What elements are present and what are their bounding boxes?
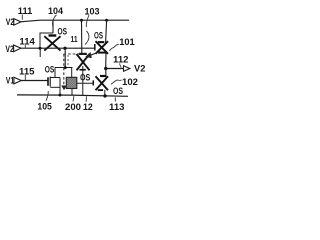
current path arrow shaft to transistor 11 (90, 52, 100, 56)
transistor 12 bottom contact bar (80, 69, 86, 71)
svg-text:OS: OS (94, 30, 103, 40)
svg-text:115: 115 (19, 66, 35, 76)
svg-text:113: 113 (109, 102, 125, 112)
svg-text:V2: V2 (6, 17, 15, 27)
svg-text:OS: OS (45, 65, 55, 75)
label 104 (48, 6, 64, 27)
wire 200 to row D (71, 89, 73, 96)
wire source of 11 down to output node (105, 53, 107, 69)
wire mid node horizontal (55, 67, 73, 69)
transistor 11 bottom contact bar (98, 52, 106, 54)
transistor 11 gate bar (94, 44, 96, 51)
svg-text:V1: V1 (6, 76, 15, 86)
transistor 13 source lead (50, 86, 60, 88)
label 12 (83, 96, 93, 112)
svg-text:OS: OS (80, 72, 90, 82)
svg-text:103: 103 (85, 7, 100, 17)
svg-text:111: 111 (18, 6, 33, 16)
label 111 (18, 6, 33, 20)
wire 111 (row A, top V2 bus) (20, 20, 129, 22)
label 112 (113, 54, 129, 67)
svg-text:OS: OS (58, 26, 68, 36)
wire source of 102 to row D (104, 90, 106, 96)
node dot output V2 (104, 67, 107, 70)
transistor 14 top contact bar (49, 34, 57, 36)
terminal V2 output (124, 64, 146, 74)
svg-text:101: 101 (119, 37, 135, 47)
svg-text:102: 102 (122, 77, 138, 87)
svg-text:11: 11 (71, 35, 78, 44)
wire 114 (row B, second V2 bus) (21, 47, 95, 49)
label 102 (111, 77, 138, 87)
transistor 102 (crossed out, OS) (96, 76, 109, 90)
wire bent lead row B up to gate node of transistor 14 (40, 33, 53, 48)
wire gate of transistor 14 from row A (52, 20, 54, 33)
label 101 (109, 37, 134, 51)
transistor 13 (on state MOSFET) gate bar (47, 77, 49, 86)
transistor 11 (crossed out, OS) (96, 41, 109, 54)
svg-text:104: 104 (48, 6, 64, 16)
svg-text:112: 112 (113, 54, 129, 64)
transistor 102 top contact bar (100, 75, 106, 77)
wire gate of transistor 102 (77, 82, 93, 84)
svg-text:114: 114 (19, 36, 35, 46)
transistor 102 gate bar (92, 80, 94, 85)
node dot row B x=65 (63, 47, 66, 50)
label 11 (71, 31, 89, 45)
svg-text:200: 200 (65, 102, 81, 112)
wire node row B down to mid node (64, 48, 66, 67)
wire stub below node x=40 (39, 49, 41, 58)
wire riser to element 200 (71, 68, 73, 78)
wire 105 (row D bottom bus) (17, 95, 128, 96)
node dot row B x=40 (39, 47, 42, 50)
transistor 12 (crossed out, OS) (77, 54, 90, 70)
terminal V1 input (6, 76, 21, 86)
wire 112 (row E, output) (106, 68, 124, 70)
transistor 11 top contact bar (98, 41, 105, 43)
node dot row D x=106 (103, 94, 106, 97)
current path arrow head (85, 52, 92, 58)
svg-text:V2: V2 (5, 44, 14, 54)
transistor 14 (crossed out, OS) (44, 36, 60, 50)
terminal V2 input middle (5, 44, 21, 54)
terminal V2 input top (6, 17, 21, 27)
wire drain of 102 from output node (105, 69, 107, 76)
transistor 13 drain lead (50, 77, 60, 79)
label 105 (37, 91, 52, 112)
wire source of 13 down to row D (59, 78, 61, 96)
wire gate of transistor 12 from row A (81, 20, 83, 53)
label 115 (19, 66, 35, 80)
transistor 13 channel bar (49, 77, 51, 87)
current path dashed horizontal (64, 53, 87, 55)
svg-text:V2: V2 (134, 64, 146, 74)
label 114 (19, 36, 35, 47)
current path dashed vertical (63, 54, 65, 86)
node dot row A x=106.8 (105, 19, 108, 22)
current path arrow lower (61, 86, 67, 91)
node dot row A x=81.5 (80, 19, 83, 22)
label 200 (65, 96, 81, 112)
svg-text:12: 12 (83, 102, 93, 112)
node dot mid (64, 66, 67, 69)
current path dashed vertical short (67, 55, 69, 66)
svg-text:OS: OS (113, 86, 123, 96)
capacitor block 200 (66, 77, 77, 88)
svg-text:105: 105 (37, 102, 52, 112)
transistor 12 top contact bar (79, 53, 87, 55)
wire drain of 11 from row A (106, 20, 107, 42)
wire riser to transistor 13 drain (54, 68, 56, 78)
wire 115 (row C, V1 input) (21, 80, 48, 82)
label 103 (85, 7, 100, 27)
node dot row D x=60 (59, 94, 62, 97)
label 113 (109, 97, 125, 112)
transistor 102 bottom contact bar (98, 89, 103, 91)
wire source of 12 down to row D (82, 66, 84, 96)
